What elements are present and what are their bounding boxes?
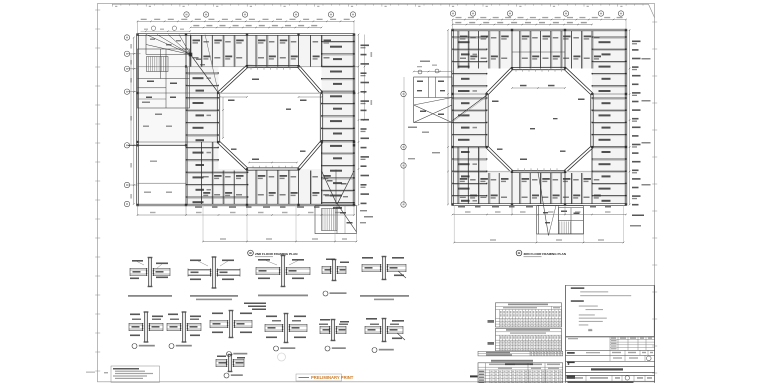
revision dash marks xyxy=(470,352,575,379)
left plan top grid bubbles xyxy=(141,12,356,32)
title block revision table xyxy=(566,337,655,350)
svg-text:PRELIMINARY PRINT: PRELIMINARY PRINT xyxy=(311,375,354,380)
orange preliminary stamp box xyxy=(296,374,354,381)
sheet border frame xyxy=(98,4,655,382)
left plan bottom dim extension stubs xyxy=(138,205,357,242)
detail D4 small connection with bubble xyxy=(322,259,349,297)
left plan stair extension xyxy=(315,203,367,233)
left plan left band joists xyxy=(186,72,249,203)
left plan bottom dims and title xyxy=(137,212,358,257)
left border fold ticks xyxy=(95,10,100,371)
left plan opening interior dims xyxy=(219,79,323,164)
right plan bottom band joists xyxy=(458,147,601,204)
left plan gray deck line xyxy=(219,92,357,94)
left plan bottom band joists xyxy=(201,142,330,204)
right plan top grid bubbles xyxy=(450,11,623,16)
detail D3 girder connection xyxy=(256,255,310,296)
detail D9 xyxy=(265,313,307,351)
right plan left grid bubbles xyxy=(401,29,449,207)
title block bottom rows xyxy=(566,372,655,383)
top ruler scale bar xyxy=(112,4,655,17)
right plan girder extension lines xyxy=(453,30,627,205)
detail D1 typical beam connection xyxy=(128,257,172,297)
corner note text outside border xyxy=(86,372,95,373)
detail D7 xyxy=(167,311,201,348)
right plan bottom dim extension stubs xyxy=(454,205,623,243)
title block thin strip xyxy=(566,361,655,366)
right plan opening interior dims xyxy=(492,85,585,160)
left plan bottom-right V brace xyxy=(322,170,355,205)
detail D2 moment connection xyxy=(188,256,240,300)
detail D8 with notes above xyxy=(210,303,266,357)
schedule table T2 xyxy=(488,328,562,351)
left plan bottom edge labels xyxy=(195,206,320,208)
right plan left outrigger appendage xyxy=(413,65,487,123)
right plan outer box xyxy=(452,29,627,205)
left plan band shading xyxy=(138,35,355,206)
right plan top band joists xyxy=(458,31,601,69)
detail D5 stair stringer to beam connection xyxy=(360,256,409,325)
right plan right band joists xyxy=(592,36,627,202)
right plan opening octagon ring xyxy=(486,67,593,172)
left sheet-number title strip xyxy=(505,363,533,365)
right plan opening inside-edge ticks xyxy=(516,70,562,171)
left plan top band joists xyxy=(191,36,332,67)
svg-text:2ND FLOOR FRAMING PLAN: 2ND FLOOR FRAMING PLAN xyxy=(255,252,298,256)
detail D6 xyxy=(129,311,163,348)
left plan right side dims and labels xyxy=(358,34,372,206)
detail D11 with angled seat xyxy=(365,318,405,353)
title block approval row xyxy=(566,355,655,361)
left plan opening octagon ring xyxy=(217,65,322,170)
svg-text:3RD FLOOR FRAMING PLAN: 3RD FLOOR FRAMING PLAN xyxy=(524,252,567,256)
left plan opening inside-edge ticks xyxy=(251,68,292,169)
right plan band shading xyxy=(453,30,627,205)
right plan right side dims and labels xyxy=(629,29,651,216)
left plan right band joists xyxy=(321,41,354,209)
right border fold ticks xyxy=(652,22,657,373)
right plan column node marks xyxy=(451,29,627,206)
left plan interior grid lines xyxy=(128,54,359,185)
left plan top-left stair appendage fan xyxy=(146,35,219,94)
right plan gray deck line xyxy=(453,171,593,173)
title block notes box xyxy=(566,285,655,336)
right plan stair extension xyxy=(537,172,584,236)
right plan bottom edge labels xyxy=(458,206,611,208)
left plan top dimension rows xyxy=(137,19,355,35)
left plan left grid bubbles and dims xyxy=(124,35,134,207)
detail D12 bottom center xyxy=(216,354,245,378)
left plan girder extension lines xyxy=(138,35,355,206)
title block scale row xyxy=(566,350,655,355)
general notes box bottom-left xyxy=(104,366,160,382)
schedule table T4 (beam schedule) xyxy=(478,360,563,383)
title block drawing title strip xyxy=(566,367,655,373)
faint stamp circle xyxy=(278,353,286,361)
right plan bottom dims and title xyxy=(452,211,627,257)
schedule rows T3 xyxy=(478,351,563,356)
detail D10 xyxy=(319,319,349,351)
right plan left band joists xyxy=(452,36,487,202)
schedule table T1 (joist schedule) xyxy=(488,303,562,327)
left plan stair room block xyxy=(138,49,190,193)
right plan top dimension rows xyxy=(452,17,627,30)
title block side borders xyxy=(566,285,655,383)
left plan outer box xyxy=(137,34,355,206)
stray annotations between plans xyxy=(364,61,641,227)
left plan column node marks xyxy=(136,33,355,206)
